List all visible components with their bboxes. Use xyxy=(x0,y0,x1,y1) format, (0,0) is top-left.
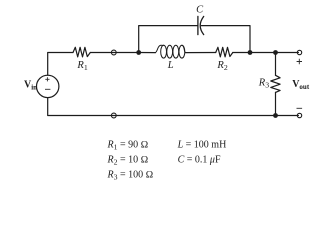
junction dot R3 bottom xyxy=(273,113,278,118)
svg-text:Vin: Vin xyxy=(24,80,37,92)
inductor L coil xyxy=(155,45,185,58)
node: bottom output open terminal xyxy=(297,113,301,117)
wire: junction A to inductor xyxy=(139,52,156,54)
wire: inductor to R2 xyxy=(185,52,215,54)
svg-text:R3: R3 xyxy=(258,78,269,90)
svg-text:R3 = 100 Ω: R3 = 100 Ω xyxy=(107,169,154,181)
node: open port circle on bottom rail xyxy=(111,113,116,118)
wire: Vin top to R1 (top rail left) xyxy=(48,53,73,76)
wire: R3 to bottom rail xyxy=(275,92,277,115)
node: open port circle on top rail xyxy=(111,50,116,55)
junction dot B xyxy=(248,50,253,55)
wire: junction A up and across capacitor branch xyxy=(139,26,198,53)
source V_in circle xyxy=(37,75,59,97)
minus sign at output xyxy=(297,107,303,109)
svg-text:R1: R1 xyxy=(76,60,87,72)
wire: bottom rail from Vin to bottom output terminal xyxy=(48,98,299,116)
junction dot A xyxy=(136,50,141,55)
resistor R3 xyxy=(271,75,280,92)
svg-text:C: C xyxy=(196,5,204,16)
plus sign at output xyxy=(297,59,302,64)
resistor R2 xyxy=(216,47,233,57)
minus sign inside source xyxy=(45,88,50,90)
wire: junction C down to R3 xyxy=(275,53,277,76)
wire: capacitor right to junction B xyxy=(201,26,250,53)
capacitor C right plate (curved) xyxy=(200,16,204,34)
svg-text:R2: R2 xyxy=(216,60,227,72)
svg-text:Vout: Vout xyxy=(292,79,310,91)
wire: R2 to top output terminal xyxy=(233,52,299,54)
plus sign inside source xyxy=(45,77,49,81)
svg-text:L: L xyxy=(167,60,174,71)
node: top output open terminal xyxy=(297,50,301,54)
wire: R1 to junction A (passes through port circle) xyxy=(90,52,138,54)
svg-text:R1 = 90 Ω: R1 = 90 Ω xyxy=(107,140,149,152)
capacitor C left plate xyxy=(197,16,199,34)
svg-text:C = 0.1 μF: C = 0.1 μF xyxy=(178,155,221,166)
svg-text:L = 100 mH: L = 100 mH xyxy=(177,140,227,151)
resistor R1 xyxy=(73,47,90,57)
junction dot C (R3 top) xyxy=(273,50,278,55)
svg-text:R2 = 10 Ω: R2 = 10 Ω xyxy=(107,155,149,167)
